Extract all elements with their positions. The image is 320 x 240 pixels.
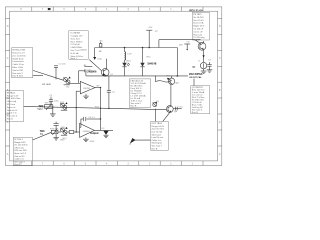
- svg-text:Imax 0.5 A: Imax 0.5 A: [193, 22, 204, 25]
- svg-text:Rev B: Rev B: [14, 164, 20, 166]
- svg-text:IN TB2-1: IN TB2-1: [7, 92, 16, 94]
- svg-text:Cable 3.0 m: Cable 3.0 m: [12, 64, 24, 66]
- svg-text:Offset adj: Offset adj: [14, 146, 24, 149]
- svg-text:Vos 2 mV: Vos 2 mV: [71, 50, 81, 52]
- svg-text:R20 trim 50K: R20 trim 50K: [14, 149, 27, 152]
- svg-text:Input: Input: [38, 107, 43, 110]
- svg-text:+15V: +15V: [148, 27, 153, 29]
- svg-text:IC LM358: IC LM358: [71, 33, 81, 35]
- svg-text:C6 0.1: C6 0.1: [88, 117, 95, 119]
- svg-text:See note 7: See note 7: [152, 145, 163, 148]
- svg-text:Zin 100 kOhm: Zin 100 kOhm: [14, 145, 28, 147]
- svg-text:Zsrc 10 kOhm: Zsrc 10 kOhm: [12, 55, 26, 57]
- svg-text:Rev B: Rev B: [152, 148, 158, 150]
- svg-text:Vout 15.0V: Vout 15.0V: [193, 19, 204, 22]
- svg-text:Span cal 1.0: Span cal 1.0: [14, 153, 27, 155]
- svg-text:IN TB1-1 SIG: IN TB1-1 SIG: [12, 50, 25, 52]
- svg-text:Rev B 4/21: Rev B 4/21: [12, 76, 23, 78]
- svg-text:LED1: LED1: [126, 60, 132, 62]
- svg-text:2N3906: 2N3906: [87, 69, 97, 73]
- svg-text:Cable 2 m: Cable 2 m: [14, 159, 24, 161]
- svg-text:Cf 100 pF: Cf 100 pF: [71, 44, 81, 46]
- svg-text:Twisted pair: Twisted pair: [12, 60, 24, 63]
- svg-text:C2 0.1 uF: C2 0.1 uF: [193, 31, 203, 33]
- svg-text:Range 0-10V: Range 0-10V: [152, 126, 165, 128]
- svg-text:Short prot: Short prot: [152, 133, 162, 136]
- svg-text:Ripple 2mV: Ripple 2mV: [193, 26, 205, 28]
- svg-text:Gnd at TB1: Gnd at TB1: [12, 69, 24, 72]
- svg-text:Zin 100 kOhm: Zin 100 kOhm: [7, 98, 21, 100]
- svg-text:Load 1k min: Load 1k min: [152, 137, 164, 139]
- svg-text:GND: GND: [60, 139, 65, 141]
- svg-text:See note 3: See note 3: [7, 115, 18, 118]
- svg-text:D: D: [7, 25, 9, 28]
- svg-text:Filter 1 kHz: Filter 1 kHz: [12, 66, 23, 69]
- svg-text:See note 2: See note 2: [12, 72, 23, 75]
- svg-text:See note 3: See note 3: [14, 160, 25, 163]
- svg-text:Output: Output: [90, 131, 99, 135]
- svg-text:Shield drain: Shield drain: [12, 58, 24, 60]
- svg-text:Iout 10 mA: Iout 10 mA: [152, 131, 163, 134]
- svg-text:R9 10K: R9 10K: [45, 102, 53, 104]
- svg-text:R10 trim: R10 trim: [7, 103, 15, 106]
- svg-text:Cable 5 m: Cable 5 m: [152, 140, 162, 142]
- svg-text:Range 0-5V: Range 0-5V: [14, 142, 26, 144]
- svg-text:D: D: [219, 25, 221, 28]
- svg-text:C1 100 uF: C1 100 uF: [193, 29, 204, 31]
- svg-text:U5 OUT CAL: U5 OUT CAL: [189, 76, 202, 79]
- svg-text:Span cal: Span cal: [7, 107, 16, 109]
- svg-text:Vsupply 15V: Vsupply 15V: [71, 36, 84, 38]
- svg-text:Cable 2 m: Cable 2 m: [7, 113, 17, 115]
- svg-text:C: C: [219, 57, 221, 60]
- svg-text:GND: GND: [90, 141, 95, 143]
- svg-text:Offset adj: Offset adj: [7, 100, 17, 103]
- svg-text:Rev B: Rev B: [192, 112, 198, 114]
- svg-text:R19 50K: R19 50K: [50, 128, 59, 130]
- svg-text:Gnd ref 0V: Gnd ref 0V: [14, 156, 25, 158]
- svg-text:Zout 50 Ohm: Zout 50 Ohm: [152, 128, 165, 131]
- svg-text:Gnd ref 0V: Gnd ref 0V: [7, 110, 18, 112]
- svg-text:Range 0-5V: Range 0-5V: [7, 95, 19, 97]
- svg-text:LM358: LM358: [83, 88, 90, 90]
- svg-text:Rev B: Rev B: [7, 119, 13, 121]
- svg-text:Rev B: Rev B: [131, 106, 137, 108]
- svg-text:Ib 45 nA: Ib 45 nA: [71, 52, 80, 55]
- svg-text:REV 21-04: REV 21-04: [189, 8, 203, 12]
- svg-text:1N4148: 1N4148: [147, 61, 157, 65]
- svg-text:Heat sink: Heat sink: [193, 33, 203, 36]
- svg-text:C: C: [7, 57, 9, 60]
- svg-text:Rin 1 MOhm: Rin 1 MOhm: [71, 41, 83, 43]
- svg-text:Vin 18-24V: Vin 18-24V: [193, 17, 204, 19]
- svg-text:OUT TB4-1: OUT TB4-1: [152, 123, 164, 125]
- svg-text:PS 7815: PS 7815: [193, 14, 202, 16]
- svg-text:Shield gnd: Shield gnd: [152, 143, 163, 145]
- svg-text:U1A: U1A: [97, 57, 102, 60]
- svg-text:LM358: LM358: [80, 50, 87, 52]
- svg-text:Sensor 0-1 V: Sensor 0-1 V: [12, 53, 25, 55]
- svg-text:IN TB3-1: IN TB3-1: [14, 139, 23, 141]
- svg-text:C2 10n: C2 10n: [59, 64, 67, 66]
- svg-text:Note 1: Note 1: [71, 57, 78, 60]
- svg-text:100n: 100n: [54, 101, 60, 103]
- svg-text:1mH: 1mH: [127, 54, 132, 56]
- svg-text:R3 100K: R3 100K: [42, 84, 51, 86]
- svg-text:Gain 10.0: Gain 10.0: [71, 38, 81, 40]
- svg-text:2N2 DIP8A: 2N2 DIP8A: [189, 73, 203, 76]
